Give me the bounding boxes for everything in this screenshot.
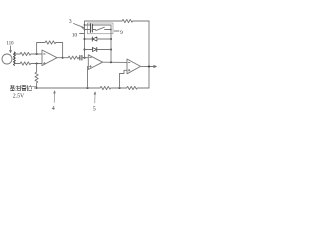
resistor R bottom-left	[20, 62, 31, 65]
wire to right rail top	[133, 20, 149, 22]
wire bottom sensor	[15, 63, 20, 65]
feedback wire up	[37, 43, 45, 55]
cap branch wire upper	[85, 24, 112, 26]
node dot baseline-left	[36, 87, 38, 89]
hold circuit box 3	[88, 23, 114, 34]
feedback resistor R5	[127, 86, 138, 89]
wire cap to op2	[82, 57, 88, 59]
switch S1 blade	[96, 27, 111, 30]
arrow 5	[94, 92, 96, 103]
wire to right rail	[137, 87, 149, 89]
op-amp 2	[88, 55, 102, 70]
wire to op1 -in	[31, 63, 42, 65]
switch branch wire lower	[85, 29, 96, 31]
wire to node	[111, 87, 127, 89]
wire from diode D2	[97, 49, 111, 51]
op1 input polarity marks	[44, 54, 46, 64]
rail dots	[84, 24, 86, 26]
reference potential label (kanji)	[10, 85, 32, 91]
op3 polarity marks	[128, 62, 130, 71]
op-amp 3	[127, 59, 141, 74]
label leader dash	[32, 85, 36, 87]
leader line for 110	[10, 46, 12, 53]
series capacitor	[80, 55, 82, 60]
svg-text:110: 110	[6, 40, 14, 46]
op2 polarity marks	[90, 58, 92, 68]
op-amp 1	[42, 50, 57, 66]
top feedback wire	[85, 20, 123, 22]
svg-text:9: 9	[120, 30, 123, 36]
baseline wire (2.5V reference)	[35, 87, 101, 89]
series resistor R3	[68, 56, 79, 59]
op2 output wire to op3	[103, 61, 128, 63]
capacitor C1 (tall plates)	[90, 24, 92, 33]
op2 +in wire down to baseline	[87, 66, 90, 88]
op3 -in wire from feedback node	[120, 70, 128, 88]
reference potential label 2.5V	[13, 93, 25, 99]
leader 10	[80, 33, 84, 35]
right rail upper segment	[110, 25, 112, 62]
thermistor element (vertical zigzag)	[13, 52, 15, 65]
op3 output wire with arrow	[141, 65, 157, 67]
wire to diode D2	[85, 49, 93, 51]
label 110	[6, 40, 14, 46]
left feedback rail	[84, 21, 86, 58]
wire to diode D1 anode	[85, 38, 93, 40]
node dot on rail	[84, 57, 86, 59]
wire to series cap	[79, 57, 80, 59]
top feedback resistor R6	[122, 19, 133, 22]
svg-text:4: 4	[52, 106, 55, 112]
label 3	[69, 19, 72, 25]
baseline resistor R4	[100, 86, 111, 89]
diode D1 (points left)	[91, 37, 93, 41]
wire to op1 +in	[31, 53, 42, 55]
resistor R top-left	[20, 52, 31, 55]
sensor circle	[2, 54, 12, 64]
feedback wire down to output	[56, 43, 63, 58]
feedback resistor R2	[45, 41, 56, 44]
leader 9	[114, 30, 119, 32]
right rail dots	[110, 38, 112, 40]
label 9	[120, 30, 123, 36]
box right node dot	[110, 29, 112, 31]
svg-text:10: 10	[72, 32, 78, 38]
node dot B	[36, 63, 38, 65]
wire top sensor	[15, 53, 20, 55]
svg-text:2.5V: 2.5V	[13, 93, 25, 99]
svg-text:5: 5	[93, 106, 96, 112]
svg-text:3: 3	[69, 19, 72, 25]
label 10	[72, 32, 78, 38]
diode D2 (points right)	[92, 47, 96, 51]
leader 3	[74, 24, 84, 29]
node dot out1	[62, 57, 64, 59]
op1 output wire	[57, 57, 68, 59]
node dot rail-bottom	[110, 61, 112, 63]
node dot feedback	[119, 87, 121, 89]
wire from diode D1	[97, 38, 111, 40]
vertical resistor to reference	[35, 64, 38, 89]
node dot op2+	[87, 87, 89, 89]
right vertical rail	[148, 21, 150, 88]
node dot A	[36, 53, 38, 55]
node dot output/rail	[148, 66, 150, 68]
arrow 4	[54, 91, 56, 103]
